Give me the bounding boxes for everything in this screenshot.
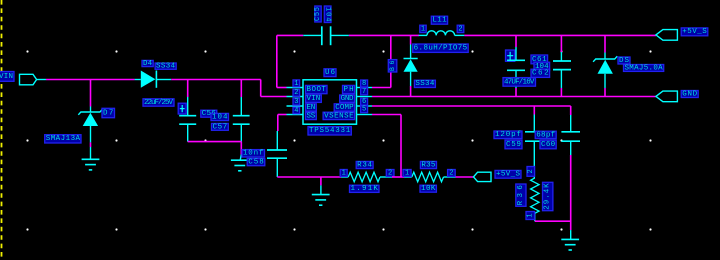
pin 1 (R36) xyxy=(526,212,535,220)
svg-text:47UF/16V: 47UF/16V xyxy=(504,78,535,86)
wire C56/C57 ground bus xyxy=(188,142,242,155)
svg-text:GND: GND xyxy=(682,90,697,98)
wire C58 to divider xyxy=(277,176,341,178)
label PH xyxy=(343,85,355,94)
wire D8 to GND rail xyxy=(410,86,412,97)
label C60 xyxy=(540,140,556,149)
svg-text:EN: EN xyxy=(307,104,316,112)
wire BOOT riser xyxy=(277,35,287,87)
label R36 xyxy=(516,184,526,206)
port VIN xyxy=(20,74,47,85)
label C58 xyxy=(247,158,265,166)
wire junction to C62 xyxy=(560,35,562,52)
capacitor C58 xyxy=(267,131,287,177)
svg-text:7: 7 xyxy=(362,88,366,96)
pin 7 (U6) xyxy=(361,88,368,96)
wire junction to C61 xyxy=(515,35,517,47)
svg-text:1: 1 xyxy=(526,213,534,217)
svg-text:C58: C58 xyxy=(248,159,264,167)
capacitor C60 xyxy=(561,115,580,155)
svg-text:SMAJ13A: SMAJ13A xyxy=(46,135,81,143)
label COMP xyxy=(334,104,354,112)
diode D8 SS34 (catch) xyxy=(404,45,418,87)
svg-text:U6: U6 xyxy=(325,69,335,77)
svg-text:D7: D7 xyxy=(103,109,114,117)
label BOOT xyxy=(306,85,328,94)
svg-text:2: 2 xyxy=(388,169,392,177)
pin 1 (R34) xyxy=(340,169,347,177)
pin 6 (U6) xyxy=(361,98,368,106)
svg-text:1: 1 xyxy=(342,169,346,177)
svg-text:2: 2 xyxy=(449,169,453,177)
label R35 xyxy=(420,161,436,169)
capacitor C62 xyxy=(553,52,571,88)
label 104 (C62) xyxy=(534,62,550,71)
svg-text:1: 1 xyxy=(405,169,409,177)
pin 2 (R35) xyxy=(448,169,456,177)
label TPS54331 xyxy=(308,127,351,136)
ground (input caps) xyxy=(231,155,249,171)
wire junction to C57 xyxy=(240,80,242,98)
diode DS (TVS) xyxy=(593,53,617,89)
capacitor C59 xyxy=(525,115,544,179)
svg-text:2: 2 xyxy=(458,25,462,33)
svg-text:29.4K: 29.4K xyxy=(544,183,552,210)
label VIN xyxy=(0,72,14,82)
wire PH rail xyxy=(349,34,419,36)
label D4 xyxy=(142,60,153,68)
wire VIN to D4 xyxy=(46,79,135,81)
label 104 (C56) xyxy=(211,113,229,121)
svg-text:COMP: COMP xyxy=(335,104,354,112)
label GND (pin) xyxy=(340,95,355,103)
svg-text:C60: C60 xyxy=(541,141,556,149)
pin 3 (U6) xyxy=(293,98,300,106)
label VIN (pin) xyxy=(306,95,322,103)
ground (D7) xyxy=(82,147,100,170)
wire GND rail xyxy=(372,96,656,98)
wire output rail xyxy=(464,34,656,36)
resistor R34 xyxy=(341,172,392,182)
svg-text:C55: C55 xyxy=(314,7,322,21)
label SS34 (D4) xyxy=(155,63,176,71)
ground (C58/R34) xyxy=(312,177,330,205)
svg-text:4: 4 xyxy=(294,107,298,115)
svg-text:68pf: 68pf xyxy=(536,131,555,139)
svg-text:10nf: 10nf xyxy=(243,150,264,158)
svg-text:SS: SS xyxy=(307,112,316,120)
svg-text:120pf: 120pf xyxy=(495,131,521,139)
svg-text:104: 104 xyxy=(324,7,332,22)
svg-text:SMAJ5.0A: SMAJ5.0A xyxy=(625,64,664,72)
resistor R35 xyxy=(404,172,456,182)
pin 4 (U6) xyxy=(293,107,300,115)
pin 8 (U6) xyxy=(361,80,368,88)
pin 2 (R34) xyxy=(386,169,394,177)
label 47UF/16V xyxy=(503,78,536,87)
svg-text:VIN: VIN xyxy=(0,73,13,81)
port +5V_S (feedback) xyxy=(474,172,492,181)
wire SS to C58 xyxy=(278,115,287,132)
svg-text:1: 1 xyxy=(421,25,425,33)
label 10nf xyxy=(242,150,265,158)
svg-text:C57: C57 xyxy=(213,123,228,131)
svg-text:+5V_S: +5V_S xyxy=(496,171,520,179)
label SMAJ13A xyxy=(45,135,81,144)
wire BOOT to C55 xyxy=(277,34,304,36)
label R34 xyxy=(356,161,373,169)
label B6 xyxy=(388,60,397,72)
svg-text:1: 1 xyxy=(294,80,298,88)
label VSENSE xyxy=(323,112,355,120)
svg-text:TPS54331: TPS54331 xyxy=(309,127,351,135)
wire R36 to ground node xyxy=(535,220,571,222)
capacitor C55 xyxy=(303,26,349,45)
label SMAJ5.0A xyxy=(624,64,664,72)
label 1.91K xyxy=(350,185,380,193)
svg-text:SS34: SS34 xyxy=(156,63,176,71)
label C56 xyxy=(201,110,217,118)
svg-text:2: 2 xyxy=(294,89,298,97)
wire C62 to GND rail xyxy=(560,88,562,97)
pin 1 (U6) xyxy=(293,80,300,88)
label C57 xyxy=(212,123,229,131)
resistor R36 xyxy=(531,178,539,221)
wire C61 to GND rail xyxy=(515,88,517,97)
label 120pf xyxy=(494,131,522,139)
svg-text:3: 3 xyxy=(294,98,298,106)
wire DS to GND rail xyxy=(604,88,606,97)
capacitor C56 (electrolytic) xyxy=(178,97,196,142)
label 68pf xyxy=(535,131,556,139)
label +5V_S (feedback) xyxy=(495,170,521,178)
label 6.8uH/PIO75 xyxy=(413,44,469,53)
label D7 xyxy=(102,108,115,117)
svg-text:R35: R35 xyxy=(421,161,436,169)
op-amp U6 TPS54331 body xyxy=(287,80,373,124)
wire PH to pin 8 xyxy=(372,35,391,87)
label 22uF/25V xyxy=(143,99,174,107)
wire junction to C56 xyxy=(187,80,189,98)
wire C60 to ground xyxy=(570,155,572,230)
wire COMP line xyxy=(372,106,571,115)
svg-text:D4: D4 xyxy=(143,60,153,68)
label C59 xyxy=(505,140,522,149)
svg-text:2: 2 xyxy=(527,169,535,173)
pin 1 (R35) xyxy=(403,169,411,177)
port +5V_S (output) xyxy=(656,30,678,41)
wire junction to DS xyxy=(604,35,606,52)
svg-text:R36: R36 xyxy=(517,185,525,206)
svg-text:GND: GND xyxy=(341,95,354,103)
label EN xyxy=(306,104,317,112)
capacitor C61 (electrolytic) xyxy=(506,47,526,88)
diode D7 (TVS) xyxy=(78,107,102,143)
ground (output divider) xyxy=(561,230,579,250)
label C55 xyxy=(314,6,322,22)
label 29.4K xyxy=(543,182,553,210)
diode D4 xyxy=(135,71,172,88)
wire D7 to ground xyxy=(90,142,92,147)
wire R35 to port xyxy=(456,176,474,178)
capacitor C57 xyxy=(233,97,250,142)
label U6 xyxy=(324,69,336,77)
label L11 xyxy=(431,16,447,24)
label SS34 (D8) xyxy=(414,80,435,88)
label C62 xyxy=(531,69,550,78)
inductor L11 xyxy=(419,31,465,36)
svg-text:1.91K: 1.91K xyxy=(350,185,378,193)
wire junction to D8 xyxy=(410,35,412,44)
wire R34 to R35 junction xyxy=(392,176,404,178)
label DS xyxy=(618,57,630,65)
svg-text:+5V_S: +5V_S xyxy=(682,28,707,36)
svg-text:C62: C62 xyxy=(532,70,549,78)
svg-text:10K: 10K xyxy=(421,185,436,193)
pin 2 (U6) xyxy=(293,89,300,97)
pin 2 (R36) xyxy=(527,167,535,177)
svg-text:BOOT: BOOT xyxy=(306,86,326,94)
svg-text:8: 8 xyxy=(362,80,366,88)
svg-text:C59: C59 xyxy=(506,141,521,149)
svg-text:VSENSE: VSENSE xyxy=(324,112,354,120)
wire junction to D7 xyxy=(90,80,92,107)
label +5V_S (output) xyxy=(681,28,708,36)
wire D4 to U6 corner xyxy=(171,79,261,81)
svg-text:5: 5 xyxy=(362,106,366,114)
svg-text:VIN: VIN xyxy=(307,95,321,103)
pin 2 (L11) xyxy=(457,25,464,33)
label 10K xyxy=(420,185,436,193)
svg-text:6.8uH/PIO75: 6.8uH/PIO75 xyxy=(414,45,468,53)
label GND xyxy=(681,90,698,98)
wire junction to C59 xyxy=(533,106,535,115)
svg-text:104: 104 xyxy=(212,113,228,121)
pin 1 (L11) xyxy=(420,25,426,33)
port GND xyxy=(656,91,678,102)
svg-text:SS34: SS34 xyxy=(415,80,434,88)
label SS xyxy=(306,112,317,120)
label 104 (C55) xyxy=(324,6,332,23)
svg-text:R34: R34 xyxy=(357,161,372,169)
wire U6 VIN entry xyxy=(261,80,287,97)
svg-text:L11: L11 xyxy=(432,17,447,25)
wire VSENSE to divider xyxy=(372,115,401,178)
label C61 xyxy=(531,55,548,64)
pin 5 (U6) xyxy=(361,106,368,114)
svg-text:22uF/25V: 22uF/25V xyxy=(144,99,173,107)
svg-text:PH: PH xyxy=(344,86,354,94)
